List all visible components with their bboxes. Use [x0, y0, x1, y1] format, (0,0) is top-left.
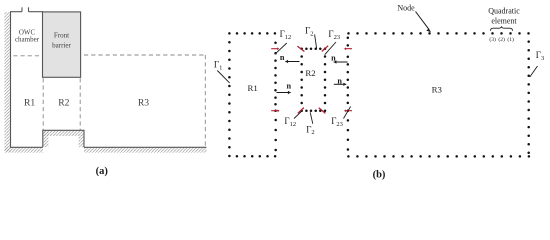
svg-text:R3: R3 [432, 84, 443, 94]
label Gamma23 bottom (b) [331, 116, 343, 128]
svg-text:R1: R1 [24, 98, 35, 109]
red arrow corner Gamma23 top (b) [344, 47, 352, 50]
Node pointer arrow (b) [416, 12, 431, 33]
red slash Gamma2 top-left end (b) [297, 46, 304, 51]
pointer line Gamma23 bottom label (b) [344, 107, 351, 119]
pointer line Gamma23 top label (b) [325, 42, 336, 55]
svg-text:n: n [287, 82, 292, 91]
label Gamma2 bottom (b) [306, 124, 314, 136]
free surface dashed line outer region (a) [84, 54, 205, 56]
red slash Gamma2 bottom-right end (b) [319, 108, 326, 114]
normal vector arrow upper-left (b) [285, 60, 299, 63]
svg-text:R1: R1 [247, 83, 257, 93]
label Gamma23 top (b) [328, 29, 340, 41]
red arrow corner Gamma12 bottom (b) [271, 109, 279, 112]
label OWC chamber [15, 28, 40, 43]
label Gamma12 bottom (b) [284, 116, 296, 128]
label Gamma2 top (b) [305, 26, 313, 38]
seabed floor under R1 (a) [10, 146, 43, 148]
hatching seabed under R3 (a) [84, 147, 207, 152]
svg-text:(1): (1) [507, 36, 514, 43]
svg-text:n: n [280, 53, 285, 62]
svg-text:element: element [491, 17, 517, 26]
pointer line Gamma3 label (b) [530, 66, 538, 77]
label Node (b) [397, 3, 415, 12]
dashed interface R2-R3 below barrier (a) [79, 78, 81, 130]
node column R2 left (b) [300, 48, 303, 112]
node row R1 seabed bottom (b) [236, 155, 277, 158]
svg-text:(b): (b) [373, 170, 386, 181]
svg-text:R3: R3 [138, 98, 149, 109]
dashed open boundary right (a) [204, 55, 206, 147]
svg-text:Front: Front [54, 31, 69, 39]
chamber lid with orifice gap (a) [10, 7, 43, 11]
caption (b) [373, 170, 386, 181]
label Quadratic element (b) [488, 7, 520, 26]
label Gamma12 top (b) [280, 29, 292, 41]
svg-text:(a): (a) [96, 166, 109, 177]
svg-text:(2): (2) [498, 36, 505, 43]
hatching step/seabed mound (a) [43, 131, 84, 148]
node row R3 seabed bottom (b) [347, 155, 530, 158]
labels element node numbers (3)(2)(1) [489, 36, 514, 43]
red slash Gamma2 bottom-left end (b) [298, 108, 304, 114]
normal vector arrow upper-right (b) [334, 60, 348, 63]
svg-text:barrier: barrier [52, 41, 71, 49]
node row R3 free surface top (b) [347, 32, 530, 35]
pointer line Gamma2 top label (b) [315, 35, 317, 49]
svg-text:n: n [331, 53, 336, 62]
svg-text:n: n [337, 76, 342, 85]
free surface dashed line in chamber (a) [13, 55, 41, 57]
hatching left wall (a) [5, 12, 11, 152]
node column R1 left wall (b) [228, 41, 231, 157]
seabed step outline (a) [43, 130, 84, 147]
pointer line Gamma12 bottom label (b) [294, 111, 302, 118]
labels n normal vectors (b) [280, 53, 342, 90]
brace over quadratic element nodes (b) [491, 26, 513, 30]
red arrow corner Gamma12 top (b) [271, 47, 279, 50]
dashed interface R1-R2 below barrier (a) [42, 78, 44, 130]
label region R1 (b) [247, 83, 257, 93]
normal vector arrow mid-right (b) [334, 83, 346, 86]
caption (a) [96, 166, 109, 177]
node row R2 step top (b) [305, 109, 321, 112]
label Front barrier [52, 31, 71, 49]
node column R3 open boundary Gamma3 (b) [527, 40, 530, 154]
front barrier (a) [43, 12, 81, 77]
label region R3 (b) [432, 84, 443, 94]
label region R2 (b) [305, 68, 315, 78]
node column R2 right (b) [324, 48, 327, 112]
pointer line Gamma12 top label (b) [275, 43, 287, 54]
pointer line Gamma2 bottom label (b) [310, 112, 313, 124]
svg-text:R2: R2 [305, 68, 315, 78]
node row R1 free surface top (b) [228, 32, 276, 35]
node column interface Gamma23 (b) [347, 36, 350, 150]
chamber left wall (a) [10, 12, 12, 148]
normal vector arrow mid-left (b) [277, 91, 291, 94]
label region R1 (a) [24, 98, 35, 109]
pointer line Gamma1 label (b) [217, 71, 229, 83]
label Gamma1 (b) [214, 60, 222, 72]
svg-text:R2: R2 [58, 98, 69, 109]
hatching seabed under R1 (a) [5, 147, 44, 152]
red arrow corner Gamma23 bottom (b) [344, 109, 352, 112]
seabed floor under R3 (a) [84, 146, 206, 148]
svg-text:Node: Node [397, 3, 415, 12]
node column interface Gamma12 (b) [274, 41, 277, 151]
red slash Gamma2 top-right end (b) [322, 46, 328, 52]
node row R2 barrier bottom (b) [305, 48, 321, 51]
svg-text:chamber: chamber [15, 36, 40, 44]
label region R2 (a) [58, 98, 69, 109]
svg-text:Quadratic: Quadratic [488, 7, 520, 16]
svg-text:(3): (3) [489, 36, 496, 43]
label Gamma3 (b) [536, 50, 544, 62]
label region R3 (a) [138, 98, 149, 109]
